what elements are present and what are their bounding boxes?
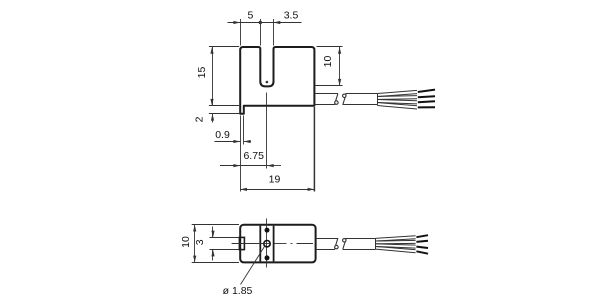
svg-text:ø 1.85: ø 1.85 <box>223 285 253 297</box>
svg-text:10: 10 <box>180 236 192 248</box>
svg-text:19: 19 <box>269 174 281 186</box>
svg-text:15: 15 <box>196 67 208 79</box>
svg-text:3.5: 3.5 <box>284 10 299 22</box>
svg-text:10: 10 <box>322 56 334 68</box>
svg-text:6.75: 6.75 <box>243 150 264 162</box>
svg-text:2: 2 <box>194 116 206 122</box>
svg-text:3: 3 <box>194 239 206 245</box>
svg-text:0.9: 0.9 <box>215 129 230 141</box>
svg-text:5: 5 <box>247 10 253 22</box>
